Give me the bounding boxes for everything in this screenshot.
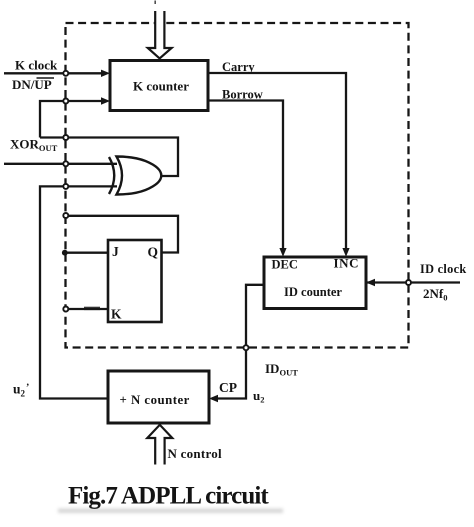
wire: XOR top input line	[4, 163, 117, 165]
XOR gate body	[117, 157, 162, 195]
K counter box	[110, 61, 208, 111]
wire: K input line	[66, 308, 109, 310]
svg-text:Fig.7 ADPLL circuit: Fig.7 ADPLL circuit	[68, 483, 269, 510]
scan smudge on K input line	[84, 307, 100, 310]
wire: Borrow output to DEC	[208, 101, 283, 250]
wire: ID clock input line	[366, 281, 460, 283]
pin circle: K input at boundary	[63, 307, 68, 312]
svg-text:K: K	[111, 307, 122, 322]
pin circle: DN/UP at boundary	[63, 99, 68, 104]
svg-text:Borrow: Borrow	[222, 88, 263, 102]
svg-text:ID clock: ID clock	[420, 262, 466, 276]
svg-text:DN/UP: DN/UP	[12, 77, 52, 92]
hollow arrow into K counter top	[148, 11, 172, 58]
pin circle: Q feedback at boundary	[63, 213, 68, 218]
svg-text:DEC: DEC	[272, 258, 298, 272]
junction dot at J pin	[62, 250, 68, 256]
svg-text:Carry: Carry	[222, 60, 255, 74]
wire: XOR bottom input / u2' feedback from divide-by-N counter	[40, 186, 117, 398]
wire: DN/UP input line with corner from XOR_OUT	[40, 101, 101, 138]
pin circle: XOR top input at boundary	[63, 161, 68, 166]
ID counter box	[264, 257, 366, 309]
divide-by-N counter box	[108, 371, 209, 423]
arrowhead into K counter (DN/UP)	[101, 97, 110, 104]
svg-text:Q: Q	[148, 245, 159, 260]
wire: ID counter output to divide-by-N CP input	[212, 285, 264, 399]
dashed IC boundary box	[66, 23, 409, 348]
arrowhead into K counter (K clock)	[101, 70, 110, 77]
pin circle: XOR bottom input at boundary	[63, 184, 68, 189]
wire: JK flip-flop Q feedback to boundary pin	[66, 216, 179, 253]
faint shaft tick above top arrow	[154, 1, 156, 5]
JK flip-flop box	[108, 240, 162, 322]
pin circle: XOR_OUT at boundary	[63, 135, 68, 140]
svg-text:CP: CP	[219, 380, 237, 395]
wire: J input line	[64, 252, 108, 254]
svg-text:ID counter: ID counter	[284, 285, 342, 299]
svg-text:+ N counter: + N counter	[120, 393, 190, 407]
arrowhead into ID counter (ID clock)	[366, 279, 375, 286]
overline over UP	[37, 77, 55, 79]
scan ghost smudge at bottom	[58, 509, 283, 514]
svg-text:INC: INC	[334, 256, 360, 271]
svg-text:K counter: K counter	[133, 79, 189, 94]
arrowhead into ID counter DEC	[279, 248, 286, 257]
arrowhead into divide-by-N counter (CP)	[209, 395, 218, 402]
pin circle: K clock at boundary	[63, 71, 68, 76]
wire: Carry output to INC	[208, 73, 346, 249]
svg-text:K clock: K clock	[15, 58, 58, 73]
svg-text:N control: N control	[168, 446, 223, 461]
pin circle: ID_OUT at bottom boundary	[244, 345, 249, 350]
svg-text:J: J	[112, 244, 119, 259]
XOR gate input back arc	[109, 157, 114, 194]
wire: XOR_OUT routing from XOR gate output up and left	[40, 138, 178, 177]
pin circle: ID clock at right boundary	[406, 280, 411, 285]
hollow arrow into divide-by-N counter bottom (N control)	[147, 425, 172, 465]
wire: K clock input line	[4, 72, 101, 74]
arrowhead into ID counter INC	[342, 248, 349, 257]
